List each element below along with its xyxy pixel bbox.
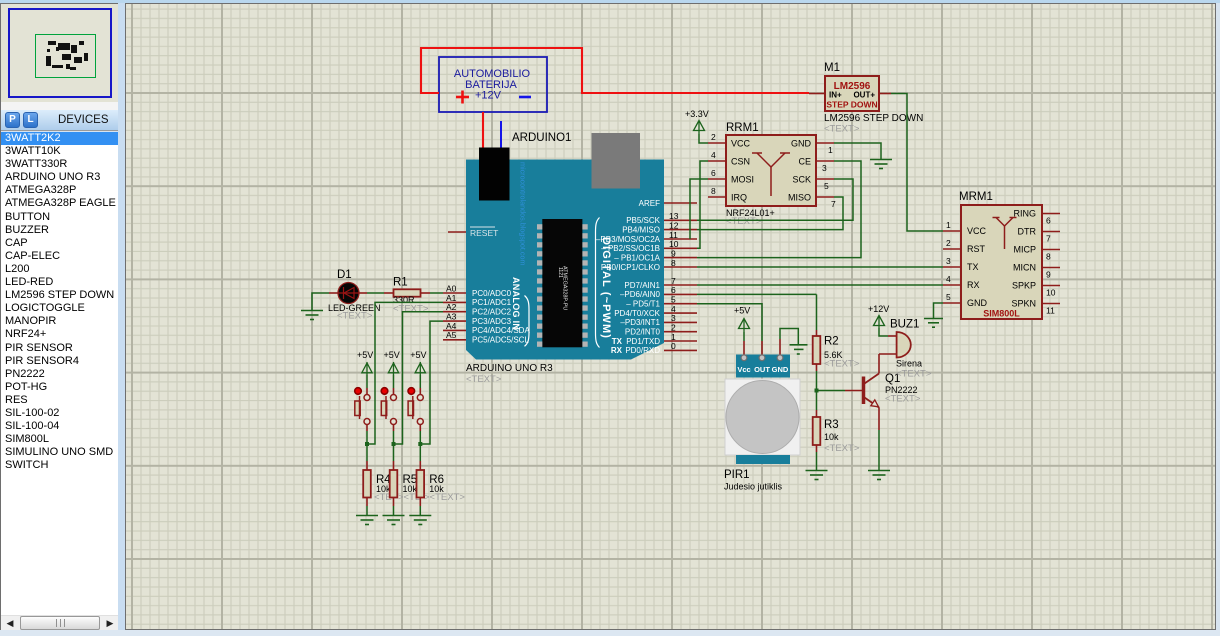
wire green junction down to R3	[816, 391, 818, 418]
arduino right pin stubs	[664, 203, 697, 350]
svg-text:MISO: MISO	[788, 193, 811, 203]
svg-text:PD7/AIN1: PD7/AIN1	[624, 281, 660, 290]
svg-text:<TEXT>: <TEXT>	[824, 124, 860, 135]
P button	[5, 112, 20, 128]
svg-text:+5V: +5V	[357, 350, 373, 360]
svg-text:<TEXT>: <TEXT>	[726, 216, 762, 227]
svg-text:VCC: VCC	[731, 139, 751, 149]
svg-text:10k: 10k	[824, 432, 839, 442]
svg-text:2: 2	[946, 238, 951, 248]
resistor R1 330R	[384, 277, 430, 315]
svg-text:7: 7	[831, 199, 836, 209]
wire green R6 to ground	[419, 506, 421, 515]
overview blue sheet rectangle	[8, 8, 112, 98]
svg-text:Judesio jutiklis: Judesio jutiklis	[724, 482, 783, 492]
gap below overview	[1, 102, 118, 110]
svg-text:MRM1: MRM1	[959, 191, 993, 203]
resistor R4 10k	[363, 470, 391, 506]
wire +5V arrow to PIR Vcc	[743, 332, 745, 356]
arduino RESET pin stub	[448, 231, 466, 233]
svg-text:+5V: +5V	[410, 350, 426, 360]
svg-text:A5: A5	[446, 330, 457, 340]
resistor R3 10k	[813, 417, 860, 454]
svg-text:SPKP: SPKP	[1012, 281, 1036, 291]
svg-text:IRQ: IRQ	[731, 193, 747, 203]
wire green arduino 8 to MRM1 TX	[697, 266, 943, 268]
svg-text:RING: RING	[1014, 209, 1037, 219]
module MRM1 SIM800L	[959, 191, 1042, 319]
svg-text:RESET: RESET	[470, 228, 498, 238]
svg-text:DTR: DTR	[1018, 227, 1037, 237]
svg-text:ANALOG IN: ANALOG IN	[511, 277, 521, 330]
wire red battery to arduino jack	[482, 112, 484, 148]
buzzer BUZ1	[890, 319, 932, 380]
svg-text:9: 9	[1046, 270, 1051, 280]
svg-text:0: 0	[671, 341, 676, 351]
RRM1 right pin numbers	[822, 145, 836, 209]
switch SW1	[355, 388, 370, 431]
power +3.3V arrow	[685, 109, 709, 134]
junction node sw1	[365, 442, 369, 446]
svg-text:RX: RX	[611, 346, 623, 355]
arduino left pin stubs A0-A5	[443, 293, 466, 340]
svg-text:8: 8	[671, 258, 676, 268]
wire green LED cathode to ground	[312, 293, 329, 310]
arduino ARDUINO1 board	[466, 132, 664, 360]
svg-text:PC4/ADC4/SDA: PC4/ADC4/SDA	[472, 326, 530, 335]
MRM1 right pin stubs	[1042, 214, 1060, 304]
power +12V arrow above buzzer	[868, 304, 889, 328]
ground right of RRM1	[870, 160, 892, 169]
ground right of PIR	[790, 345, 808, 354]
svg-text:GND: GND	[967, 298, 988, 308]
switch SW3	[408, 388, 423, 431]
wire green Q1 emitter to ground	[878, 430, 880, 470]
transistor Q1 PN2222	[864, 354, 921, 430]
svg-text:11: 11	[1046, 306, 1055, 316]
wire green arduino 7 to MRM1 RX	[697, 284, 943, 286]
arduino analog-in bracket	[525, 296, 530, 347]
svg-text:3: 3	[822, 163, 827, 173]
ground under R6	[409, 516, 431, 525]
switch SW2	[381, 388, 396, 431]
wire green R3 to ground	[816, 452, 818, 470]
junction node base	[815, 389, 819, 393]
svg-text:PC3/ADC3: PC3/ADC3	[472, 317, 512, 326]
svg-text:PB0/ICP1/CLKO: PB0/ICP1/CLKO	[601, 263, 660, 272]
window top strip	[0, 0, 1220, 3]
svg-text:CSN: CSN	[731, 157, 750, 167]
wire PIR GND to ground	[780, 329, 798, 356]
svg-text:AREF: AREF	[639, 199, 660, 208]
overview mini schematic blobs	[1, 4, 118, 103]
svg-text:4: 4	[946, 274, 951, 284]
svg-text:ARDUINO1: ARDUINO1	[512, 132, 571, 144]
svg-text:ARDUINO UNO R3: ARDUINO UNO R3	[466, 363, 553, 374]
svg-text:+5V: +5V	[734, 306, 750, 316]
svg-text:CE: CE	[798, 157, 811, 167]
svg-text:OUT+: OUT+	[853, 91, 875, 100]
wire green junction 3 to arduino A3	[420, 321, 443, 444]
arduino left pin labels PC0-PC5	[472, 289, 530, 345]
wire green arduino 5 to PIR OUT	[697, 304, 762, 356]
svg-text:M1: M1	[824, 62, 840, 74]
svg-text:PD4/T0/XCK: PD4/T0/XCK	[614, 309, 660, 318]
svg-text:8: 8	[1046, 252, 1051, 262]
junction node sw3	[418, 442, 422, 446]
battery box AUTOMOBILIO BATERIJA	[439, 57, 547, 112]
wire green RRM1 GND to ground	[834, 143, 881, 159]
devices toolbar	[1, 110, 118, 131]
arduino RESET label	[470, 227, 498, 239]
wire Q1 collector to buzzer	[879, 353, 897, 355]
ground under R3	[806, 471, 828, 480]
switch branch 3: +5V arrow	[415, 362, 425, 375]
svg-text:IN+: IN+	[829, 91, 842, 100]
svg-text:PB5/SCK: PB5/SCK	[626, 216, 660, 225]
wire green down to R2	[816, 294, 818, 336]
wire junction 2 down to R5	[393, 444, 395, 470]
ground below MRM1	[924, 319, 943, 328]
svg-text:+12V: +12V	[475, 90, 502, 102]
wire green M1 OUT to MRM1 VCC	[891, 94, 943, 232]
svg-text:<TEXT>: <TEXT>	[393, 304, 429, 315]
wire blue battery minus to arduino jack	[500, 121, 502, 148]
resistor R2 5.6K	[813, 336, 860, 372]
svg-text:6: 6	[711, 168, 716, 178]
svg-text:+3.3V: +3.3V	[685, 109, 709, 119]
RRM1 left pin numbers	[711, 132, 716, 196]
MRM1 right pin numbers	[1046, 216, 1056, 316]
svg-text:8: 8	[711, 186, 716, 196]
overview green work-area rectangle	[35, 34, 96, 78]
arduino left pin numbers A0-A5	[446, 283, 457, 340]
svg-text:MOSI: MOSI	[731, 175, 754, 185]
svg-text:Vcc: Vcc	[737, 365, 750, 374]
svg-text:SPKN: SPKN	[1011, 299, 1036, 309]
switch branch 2: +5V arrow	[388, 362, 398, 375]
module RRM1 NRF24L01+	[726, 122, 816, 227]
wire green +5V to switch 3	[419, 375, 421, 388]
svg-text:PD1/TXD: PD1/TXD	[626, 337, 660, 346]
wire green RRM1 CSN to arduino 10	[697, 161, 708, 248]
LED D1	[328, 269, 381, 322]
junction node sw2	[392, 442, 396, 446]
svg-text:PD2/INT0: PD2/INT0	[625, 328, 661, 337]
window bottom strip	[0, 630, 1220, 636]
ground under Q1	[868, 471, 890, 480]
MRM1 left pin numbers	[946, 220, 951, 302]
svg-text:RST: RST	[967, 244, 986, 254]
svg-text:<TEXT>: <TEXT>	[896, 369, 932, 380]
wire green R1 to A0	[430, 292, 443, 294]
wire green RRM1 MOSI to arduino 11	[690, 179, 708, 239]
wire green RRM1 SCK to arduino 13	[697, 179, 853, 220]
svg-text:SCK: SCK	[792, 175, 811, 185]
wire green +3.3V to RRM1 VCC	[699, 134, 708, 143]
svg-text:STEP DOWN: STEP DOWN	[826, 100, 877, 110]
window left edge	[0, 3, 1, 636]
RRM1 right pin stubs	[816, 143, 834, 197]
ground under R5	[383, 516, 405, 525]
RRM1 left pin stubs	[708, 143, 726, 197]
ground under D1	[301, 311, 323, 320]
svg-text:–PD6/AIN0: –PD6/AIN0	[620, 290, 661, 299]
svg-text:PC0/ADC0: PC0/ADC0	[472, 289, 512, 298]
svg-text:Sirena: Sirena	[896, 359, 922, 369]
svg-text:R2: R2	[824, 336, 839, 348]
svg-text:4: 4	[711, 150, 716, 160]
wire red battery + loop to LM2596 IN	[421, 48, 809, 93]
svg-text:+5V: +5V	[384, 350, 400, 360]
ground under R4	[356, 516, 378, 525]
svg-text:SIM800L: SIM800L	[983, 309, 1020, 319]
svg-text:<TEXT>: <TEXT>	[466, 374, 502, 385]
PIR sensor PIR1	[724, 355, 800, 492]
wire green R5 to ground	[393, 506, 395, 515]
svg-text:<TEXT>: <TEXT>	[885, 394, 921, 405]
svg-text:1: 1	[828, 145, 833, 155]
svg-text:D1: D1	[337, 269, 352, 281]
svg-text:+12V: +12V	[868, 304, 889, 314]
L button	[23, 112, 38, 128]
resistor R5 10k	[390, 470, 422, 506]
wire junction 3 down to R6	[419, 444, 421, 470]
svg-text:– PD5/T1: – PD5/T1	[626, 300, 660, 309]
svg-text:><TEXT>: ><TEXT>	[424, 492, 465, 503]
wire green LED to R1	[367, 292, 384, 294]
wire green switch 2 to junction	[393, 431, 395, 444]
wire green junction 2 to arduino A2	[394, 312, 444, 444]
overview panel	[1, 3, 118, 102]
svg-text:–PB3/MOS/OC2A: –PB3/MOS/OC2A	[596, 235, 661, 244]
svg-text:VCC: VCC	[967, 226, 987, 236]
wire green +5V to switch 2	[393, 375, 395, 388]
horizontal scrollbar	[1, 615, 118, 630]
wire green MRM1 GND to ground	[934, 303, 944, 318]
svg-text:–PD3/INT1: –PD3/INT1	[620, 318, 660, 327]
svg-text:7: 7	[1046, 234, 1051, 244]
svg-text:PC5/ADC5/SCL: PC5/ADC5/SCL	[472, 336, 529, 345]
arduino right pin numbers 13..0	[669, 211, 679, 351]
svg-text:PC2/ADC2: PC2/ADC2	[472, 308, 512, 317]
svg-text:GND: GND	[791, 139, 812, 149]
svg-text:TX: TX	[967, 262, 979, 272]
svg-text:3: 3	[946, 256, 951, 266]
wire junction 1 down to R4	[366, 444, 368, 470]
svg-text:LM2596 STEP DOWN: LM2596 STEP DOWN	[824, 113, 923, 124]
arduino right pin labels	[596, 199, 661, 355]
svg-text:PB4/MISO: PB4/MISO	[622, 225, 660, 234]
arduino USB connector	[592, 133, 641, 189]
svg-text:– PB1/OC1A: – PB1/OC1A	[614, 253, 660, 262]
arduino digital bracket	[596, 218, 600, 348]
svg-text:6: 6	[1046, 216, 1051, 226]
svg-text:PIR1: PIR1	[724, 469, 750, 481]
svg-text:<TEXT>: <TEXT>	[337, 311, 373, 322]
wire green junction to Q1 base	[817, 390, 863, 392]
wire green switch 1 to junction	[366, 431, 368, 444]
svg-text:RRM1: RRM1	[726, 122, 759, 134]
DEVICES label	[58, 114, 109, 126]
svg-text:BUZ1: BUZ1	[890, 319, 919, 331]
svg-text:1: 1	[946, 220, 951, 230]
wire green RRM1 CE to arduino 9	[697, 161, 861, 258]
svg-text:MICP: MICP	[1014, 245, 1037, 255]
svg-text:MICN: MICN	[1013, 263, 1036, 273]
svg-text:5: 5	[824, 181, 829, 191]
wire green +5V to switch 1	[366, 375, 368, 388]
svg-text:PD0/RXD: PD0/RXD	[625, 346, 660, 355]
wire green junction 1 to arduino A1	[367, 302, 443, 444]
wire green R4 to ground	[366, 506, 368, 515]
wire green R2 to junction	[816, 371, 818, 391]
wire green arduino 6 to R2	[697, 293, 817, 295]
arduino power jack	[479, 148, 510, 201]
module M1 LM2596	[809, 62, 923, 135]
svg-text:10: 10	[1046, 288, 1056, 298]
wire green switch 3 to junction	[419, 431, 421, 444]
svg-text:microcontrolandos.blogspot.com: microcontrolandos.blogspot.com	[519, 162, 528, 265]
svg-text:PC1/ADC1: PC1/ADC1	[472, 298, 512, 307]
svg-text:R3: R3	[824, 419, 839, 431]
svg-text:1121: 1121	[557, 267, 563, 278]
device list	[1, 132, 118, 615]
svg-text:5: 5	[946, 292, 951, 302]
ATmega328 chip U-chip	[537, 219, 588, 347]
svg-text:<TEXT>: <TEXT>	[824, 359, 860, 370]
svg-text:– PB2/SS/OC1B: – PB2/SS/OC1B	[601, 244, 660, 253]
svg-text:TX: TX	[612, 337, 623, 346]
svg-text:<TEXT>: <TEXT>	[824, 443, 860, 454]
side strip between panel and canvas	[118, 3, 125, 630]
svg-text:2: 2	[711, 132, 716, 142]
svg-text:OUT: OUT	[754, 365, 770, 374]
wire green RRM1 MISO to arduino 12	[697, 197, 843, 230]
wire +12V to buzzer	[879, 328, 897, 336]
power +5V arrow above PIR	[734, 306, 750, 333]
svg-text:R1: R1	[393, 277, 408, 289]
svg-text:RX: RX	[967, 280, 980, 290]
MRM1 left pin stubs	[943, 231, 961, 303]
resistor R6 10k	[417, 470, 466, 506]
svg-text:GND: GND	[772, 365, 789, 374]
switch branch 1: +5V arrow	[362, 362, 372, 375]
